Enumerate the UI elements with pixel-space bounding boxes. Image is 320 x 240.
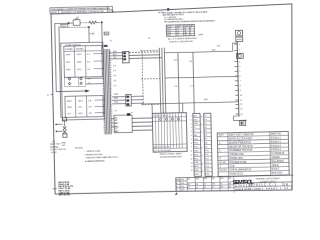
svg-text:CHK: CHK	[196, 179, 200, 181]
caption under logic block	[160, 152, 183, 158]
svg-text:NOTES: NOTES	[75, 147, 83, 149]
rail top component K1	[236, 30, 243, 36]
svg-text:F: F	[202, 155, 203, 157]
fuse F1	[73, 17, 80, 25]
wire left inner vertical	[59, 26, 61, 118]
size and dwg number row	[234, 182, 293, 188]
svg-text:B: B	[47, 95, 49, 97]
legend stacked labels	[49, 141, 66, 155]
svg-text:1034: 1034	[180, 183, 184, 185]
svg-text:1-B: 1-B	[88, 106, 92, 108]
svg-text:4.7: 4.7	[190, 86, 194, 88]
svg-text:CHOKE COIL: CHOKE COIL	[229, 153, 244, 156]
transformer winding rungs	[102, 51, 113, 132]
svg-text:1-B: 1-B	[88, 100, 92, 102]
svg-text:H: H	[202, 171, 204, 173]
svg-text:VIO: VIO	[67, 113, 71, 115]
node junction dot	[68, 22, 70, 24]
svg-text:RL8: RL8	[204, 99, 209, 101]
svg-text:1 B: 1 B	[174, 86, 178, 88]
wire neutral left vertical	[55, 23, 57, 91]
svg-text:57-P500F-B: 57-P500F-B	[271, 152, 284, 155]
svg-text:AUX: AUX	[194, 165, 199, 168]
svg-text:115VAC: 115VAC	[65, 48, 73, 51]
svg-text:3-4: 3-4	[87, 61, 91, 63]
transformer T1	[103, 40, 115, 134]
svg-text:4.5: 4.5	[114, 85, 117, 87]
svg-text:B-4107: B-4107	[272, 168, 280, 171]
svg-text:LAMP ONLY: LAMP ONLY	[50, 143, 61, 146]
svg-text:ZONE: ZONE	[108, 11, 114, 13]
diamond jumper symbols	[68, 77, 82, 80]
connector J1 upper	[112, 51, 129, 63]
svg-text:CAP ALUMINUM 2V: CAP ALUMINUM 2V	[230, 168, 252, 172]
svg-text:12: 12	[191, 158, 193, 160]
wire net R22 top	[164, 43, 237, 53]
resistor R1 zigzag	[89, 21, 100, 24]
svg-text:1162: 1162	[181, 186, 185, 188]
svg-text:GND: GND	[194, 123, 199, 125]
svg-text:2-4: 2-4	[177, 35, 180, 37]
svg-text:BAL-BTR-5: BAL-BTR-5	[271, 160, 284, 163]
svg-text:6-2: 6-2	[196, 187, 198, 189]
terminal rail TB1	[217, 41, 243, 116]
svg-text:1240: 1240	[181, 189, 185, 191]
svg-text:1-B: 1-B	[88, 113, 92, 115]
svg-text:2: 2	[239, 50, 240, 52]
svg-text:1 2 3 4 5 6 7 8 9 0 1: 1 2 3 4 5 6 7 8 9 0 1	[153, 115, 168, 117]
svg-text:DIODE CHN: DIODE CHN	[229, 157, 243, 160]
svg-text:WHT: WHT	[66, 54, 72, 56]
svg-text:ORG: ORG	[114, 102, 119, 104]
svg-text:570114-1: 570114-1	[271, 140, 282, 143]
svg-text:3: 3	[191, 123, 192, 125]
svg-text:GRY: GRY	[78, 113, 83, 115]
svg-text:570113-1: 570113-1	[271, 137, 282, 140]
svg-text:8.6: 8.6	[113, 75, 116, 77]
svg-text:13: 13	[240, 108, 242, 110]
svg-text:4: 4	[239, 66, 240, 68]
label box PRI	[104, 32, 109, 36]
svg-text:5: 5	[239, 71, 240, 73]
svg-text:10: 10	[240, 95, 242, 97]
svg-text:SPR: SPR	[195, 170, 200, 172]
svg-text:RTN: RTN	[194, 139, 199, 141]
svg-text:2: 2	[190, 119, 191, 121]
svg-text:BRN: BRN	[67, 101, 72, 103]
rail top component K1b	[236, 37, 243, 42]
title block	[176, 175, 294, 194]
svg-text:4: 4	[191, 127, 192, 129]
title block left cells	[176, 177, 188, 191]
zone tick left border	[47, 95, 53, 97]
wire drop from neutral node	[88, 27, 90, 42]
svg-text:8.3: 8.3	[113, 65, 116, 67]
svg-text:← JUMP: ← JUMP	[195, 34, 204, 36]
svg-text:13: 13	[191, 162, 193, 164]
svg-text:APP: APP	[204, 177, 207, 180]
svg-text:2.6: 2.6	[114, 110, 117, 112]
svg-text:6-4: 6-4	[204, 187, 206, 189]
title text	[256, 177, 281, 184]
top selection table	[166, 24, 204, 37]
wire neutral dashed run	[69, 26, 89, 28]
svg-text:1: 1	[239, 44, 240, 46]
svg-text:15: 15	[191, 170, 193, 172]
svg-text:BL: BL	[220, 183, 222, 185]
svg-text:ORG: ORG	[78, 100, 83, 102]
wire arrow feed	[56, 89, 90, 93]
wire to resistor (dashed)	[80, 22, 89, 24]
svg-text:12: 12	[240, 104, 242, 106]
inter-strip labels	[201, 115, 204, 173]
transformer right stubs and wire labels	[109, 53, 114, 127]
node junction dot right	[101, 21, 103, 23]
svg-text:STRIP: STRIP	[51, 152, 57, 154]
svg-text:▲ DASH NO REMOVED: ▲ DASH NO REMOVED	[85, 159, 106, 162]
wires from J1 lower	[132, 118, 153, 130]
svg-text:5.8: 5.8	[114, 80, 117, 82]
svg-text:C1-C3: C1-C3	[220, 169, 228, 172]
svg-text:YEL: YEL	[78, 107, 83, 109]
resistor riser R10	[173, 53, 179, 113]
svg-text:A: A	[201, 115, 203, 118]
strip J3 pin numbers	[190, 116, 193, 173]
sheet border	[51, 4, 296, 195]
svg-text:220UF: 220UF	[271, 164, 279, 167]
title divider	[234, 182, 293, 183]
svg-text:WITH NO LOAD APPLIED: WITH NO LOAD APPLIED	[169, 40, 194, 44]
svg-text:5: 5	[191, 131, 192, 133]
svg-text:RED: RED	[77, 61, 82, 63]
top border tick mark	[167, 8, 169, 11]
svg-text:1: 1	[190, 116, 191, 118]
input terminal enclosure	[61, 42, 105, 120]
rail coil K2	[236, 53, 243, 58]
svg-text:SW: SW	[62, 145, 65, 147]
svg-text:BUS-AGC: BUS-AGC	[272, 172, 283, 175]
notes list	[75, 147, 118, 163]
proprietary notes box	[50, 6, 115, 14]
svg-text:14: 14	[240, 114, 242, 116]
svg-text:10: 10	[190, 151, 192, 153]
svg-text:MFG: MFG	[220, 178, 224, 180]
connector J1 lower (board outline)	[114, 113, 133, 133]
connector strip J4	[204, 113, 213, 176]
svg-text:RED: RED	[66, 69, 71, 71]
pointer arrow bottom left of title block	[175, 192, 178, 195]
risers into logic block	[152, 103, 183, 113]
svg-text:230VAC: 230VAC	[76, 48, 84, 51]
svg-text:NOTE: NOTE	[51, 12, 57, 14]
svg-text:C: C	[201, 132, 203, 134]
node dot on neutral	[88, 26, 90, 28]
svg-text:B: B	[201, 124, 202, 126]
svg-text:SHOWN DE-ENERGIZED: SHOWN DE-ENERGIZED	[160, 156, 183, 159]
svg-text:3: 3	[239, 61, 240, 63]
wire down to transformer	[101, 22, 104, 49]
svg-text:FUSE AGC1: FUSE AGC1	[230, 173, 244, 176]
voltage select table A2	[64, 77, 91, 87]
svg-text:○ UNLESS OTHER CHART (AT) OF 1: ○ UNLESS OTHER CHART (AT) OF 1%	[85, 156, 119, 160]
svg-text:R2: R2	[190, 61, 193, 63]
row leader wires to transformer	[93, 53, 104, 112]
svg-text:□ RESISTORS 1/4W: □ RESISTORS 1/4W	[84, 153, 102, 156]
svg-text:7: 7	[191, 139, 192, 141]
svg-text:GRN: GRN	[114, 94, 119, 96]
wire dashed horizontal c	[142, 103, 161, 105]
svg-text:REL: REL	[228, 178, 231, 180]
svg-text:APP DK RM: APP DK RM	[59, 193, 71, 196]
svg-text:V-: V-	[194, 131, 196, 133]
svg-text:11: 11	[191, 155, 193, 157]
parts list table	[217, 131, 289, 176]
svg-text:HOLDER FUSE: HOLDER FUSE	[229, 161, 246, 164]
svg-text:PROPERTY OF SEMTROL CONTROLS I: PROPERTY OF SEMTROL CONTROLS INC	[61, 11, 105, 14]
115VAC source label box	[61, 24, 68, 28]
svg-text:CUTOUT SWITCH: CUTOUT SWITCH	[50, 149, 66, 151]
svg-text:DR: DR	[187, 179, 190, 181]
svg-text:231: 231	[217, 45, 221, 47]
svg-text:QTY: QTY	[219, 134, 224, 137]
svg-text:A B C D E F G H J K L: A B C D E F G H J K L	[154, 146, 171, 149]
svg-text:XFORMER THD PCB: XFORMER THD PCB	[229, 149, 253, 153]
transformer left stubs	[85, 53, 105, 112]
logic matrix block	[152, 113, 187, 153]
wire dashed horizontal a	[140, 49, 159, 51]
svg-text:QA: QA	[212, 177, 215, 180]
svg-text:SCALE NONE | CODE 1: SCALE NONE | CODE 1	[235, 187, 264, 191]
svg-text:BRN: BRN	[114, 98, 119, 100]
svg-text:BLK: BLK	[77, 69, 82, 71]
svg-text:115V: 115V	[61, 26, 66, 28]
svg-text:CAP: CAP	[229, 165, 234, 168]
svg-text:1N4004: 1N4004	[271, 156, 280, 159]
wire stub lower with dot	[56, 130, 63, 132]
resistor riser R2	[189, 52, 194, 113]
svg-text:6-5: 6-5	[212, 187, 214, 189]
rail bottom component CR1	[239, 121, 245, 126]
svg-text:THERMAL: THERMAL	[50, 145, 59, 148]
wire net mid	[165, 76, 238, 78]
svg-text:BLK: BLK	[66, 62, 71, 64]
title block mid table	[187, 176, 234, 193]
svg-text:AL 40: AL 40	[219, 161, 226, 164]
svg-text:6: 6	[239, 76, 240, 78]
connector J1 mid	[112, 95, 131, 107]
wire dashed horizontal b	[141, 78, 160, 80]
svg-text:PART NO: PART NO	[271, 133, 282, 136]
svg-text:SIG: SIG	[194, 135, 198, 137]
svg-text:ALL VOLTAGES MEASURED: ALL VOLTAGES MEASURED	[168, 37, 198, 41]
svg-text:57011C-C-1: 57011C-C-1	[250, 183, 276, 188]
row symbols	[159, 118, 179, 121]
svg-text:PRINTED CIRCUIT ASSY: PRINTED CIRCUIT ASSY	[256, 177, 281, 181]
svg-text:WHT: WHT	[77, 54, 83, 56]
svg-text:570115-2: 570115-2	[271, 144, 282, 147]
svg-text:9: 9	[240, 90, 241, 92]
rail bottom L-wire	[233, 116, 246, 121]
svg-text:GRN: GRN	[67, 107, 72, 109]
svg-text:RL1 RL2 RL3 RL4 RL5: RL1 RL2 RL3 RL4 RL5	[154, 150, 171, 152]
svg-text:WHT: WHT	[115, 127, 120, 129]
svg-text:T1: T1	[110, 40, 113, 42]
svg-text:7: 7	[240, 81, 241, 83]
svg-text:9: 9	[191, 147, 192, 149]
svg-text:6-8: 6-8	[220, 186, 222, 188]
svg-text:14: 14	[191, 166, 193, 168]
revision block tick	[53, 188, 57, 190]
wire L1 input	[55, 22, 73, 24]
wire dashed vertical riser	[142, 50, 143, 104]
top note lines	[162, 10, 215, 23]
svg-text:AC2: AC2	[193, 118, 198, 121]
svg-text:E: E	[201, 148, 202, 150]
revision history block	[58, 181, 74, 197]
top note footer lines	[168, 37, 198, 44]
svg-text:6-9: 6-9	[229, 186, 231, 188]
svg-text:AC1: AC1	[193, 114, 198, 117]
svg-text:1-6: 1-6	[87, 69, 91, 71]
svg-text:LT1: LT1	[52, 141, 55, 143]
wires from J1 mid	[131, 96, 143, 103]
svg-text:570116-1: 570116-1	[271, 148, 282, 151]
svg-text:11: 11	[240, 100, 242, 102]
svg-text:G: G	[202, 163, 204, 165]
scale sheet row	[235, 187, 293, 191]
svg-text:8: 8	[240, 85, 241, 87]
svg-text:RS: RS	[196, 184, 198, 186]
svg-text:6.3: 6.3	[113, 70, 116, 72]
svg-text:8: 8	[191, 143, 192, 145]
svg-text:6: 6	[191, 135, 192, 137]
voltage select table B	[65, 95, 103, 117]
svg-text:BOARD PWB ETCH: BOARD PWB ETCH	[229, 141, 251, 144]
svg-text:GRY: GRY	[114, 123, 119, 125]
connector strip J3	[193, 113, 202, 176]
voltage select table A	[64, 45, 103, 77]
svg-text:— WIRE IS 22GA: — WIRE IS 22GA	[84, 150, 100, 153]
svg-text:D: D	[201, 140, 203, 142]
svg-text:SHD: SHD	[195, 174, 200, 176]
svg-text:J2: J2	[148, 38, 151, 40]
svg-text:PRI: PRI	[104, 34, 108, 36]
wires from J1 upper to routing	[129, 52, 162, 59]
wire net low	[142, 99, 239, 104]
svg-text:10.5: 10.5	[174, 59, 179, 61]
svg-text:1 B: 1 B	[284, 182, 288, 186]
bus risers to logic block	[159, 48, 165, 113]
svg-text:1-2: 1-2	[87, 54, 91, 56]
switch chain S2	[61, 118, 67, 147]
svg-text:P16: P16	[205, 174, 209, 176]
svg-text:LOAD: LOAD	[89, 32, 95, 35]
svg-text:6-1: 6-1	[188, 187, 190, 189]
wire stub upper with dot	[55, 123, 62, 125]
